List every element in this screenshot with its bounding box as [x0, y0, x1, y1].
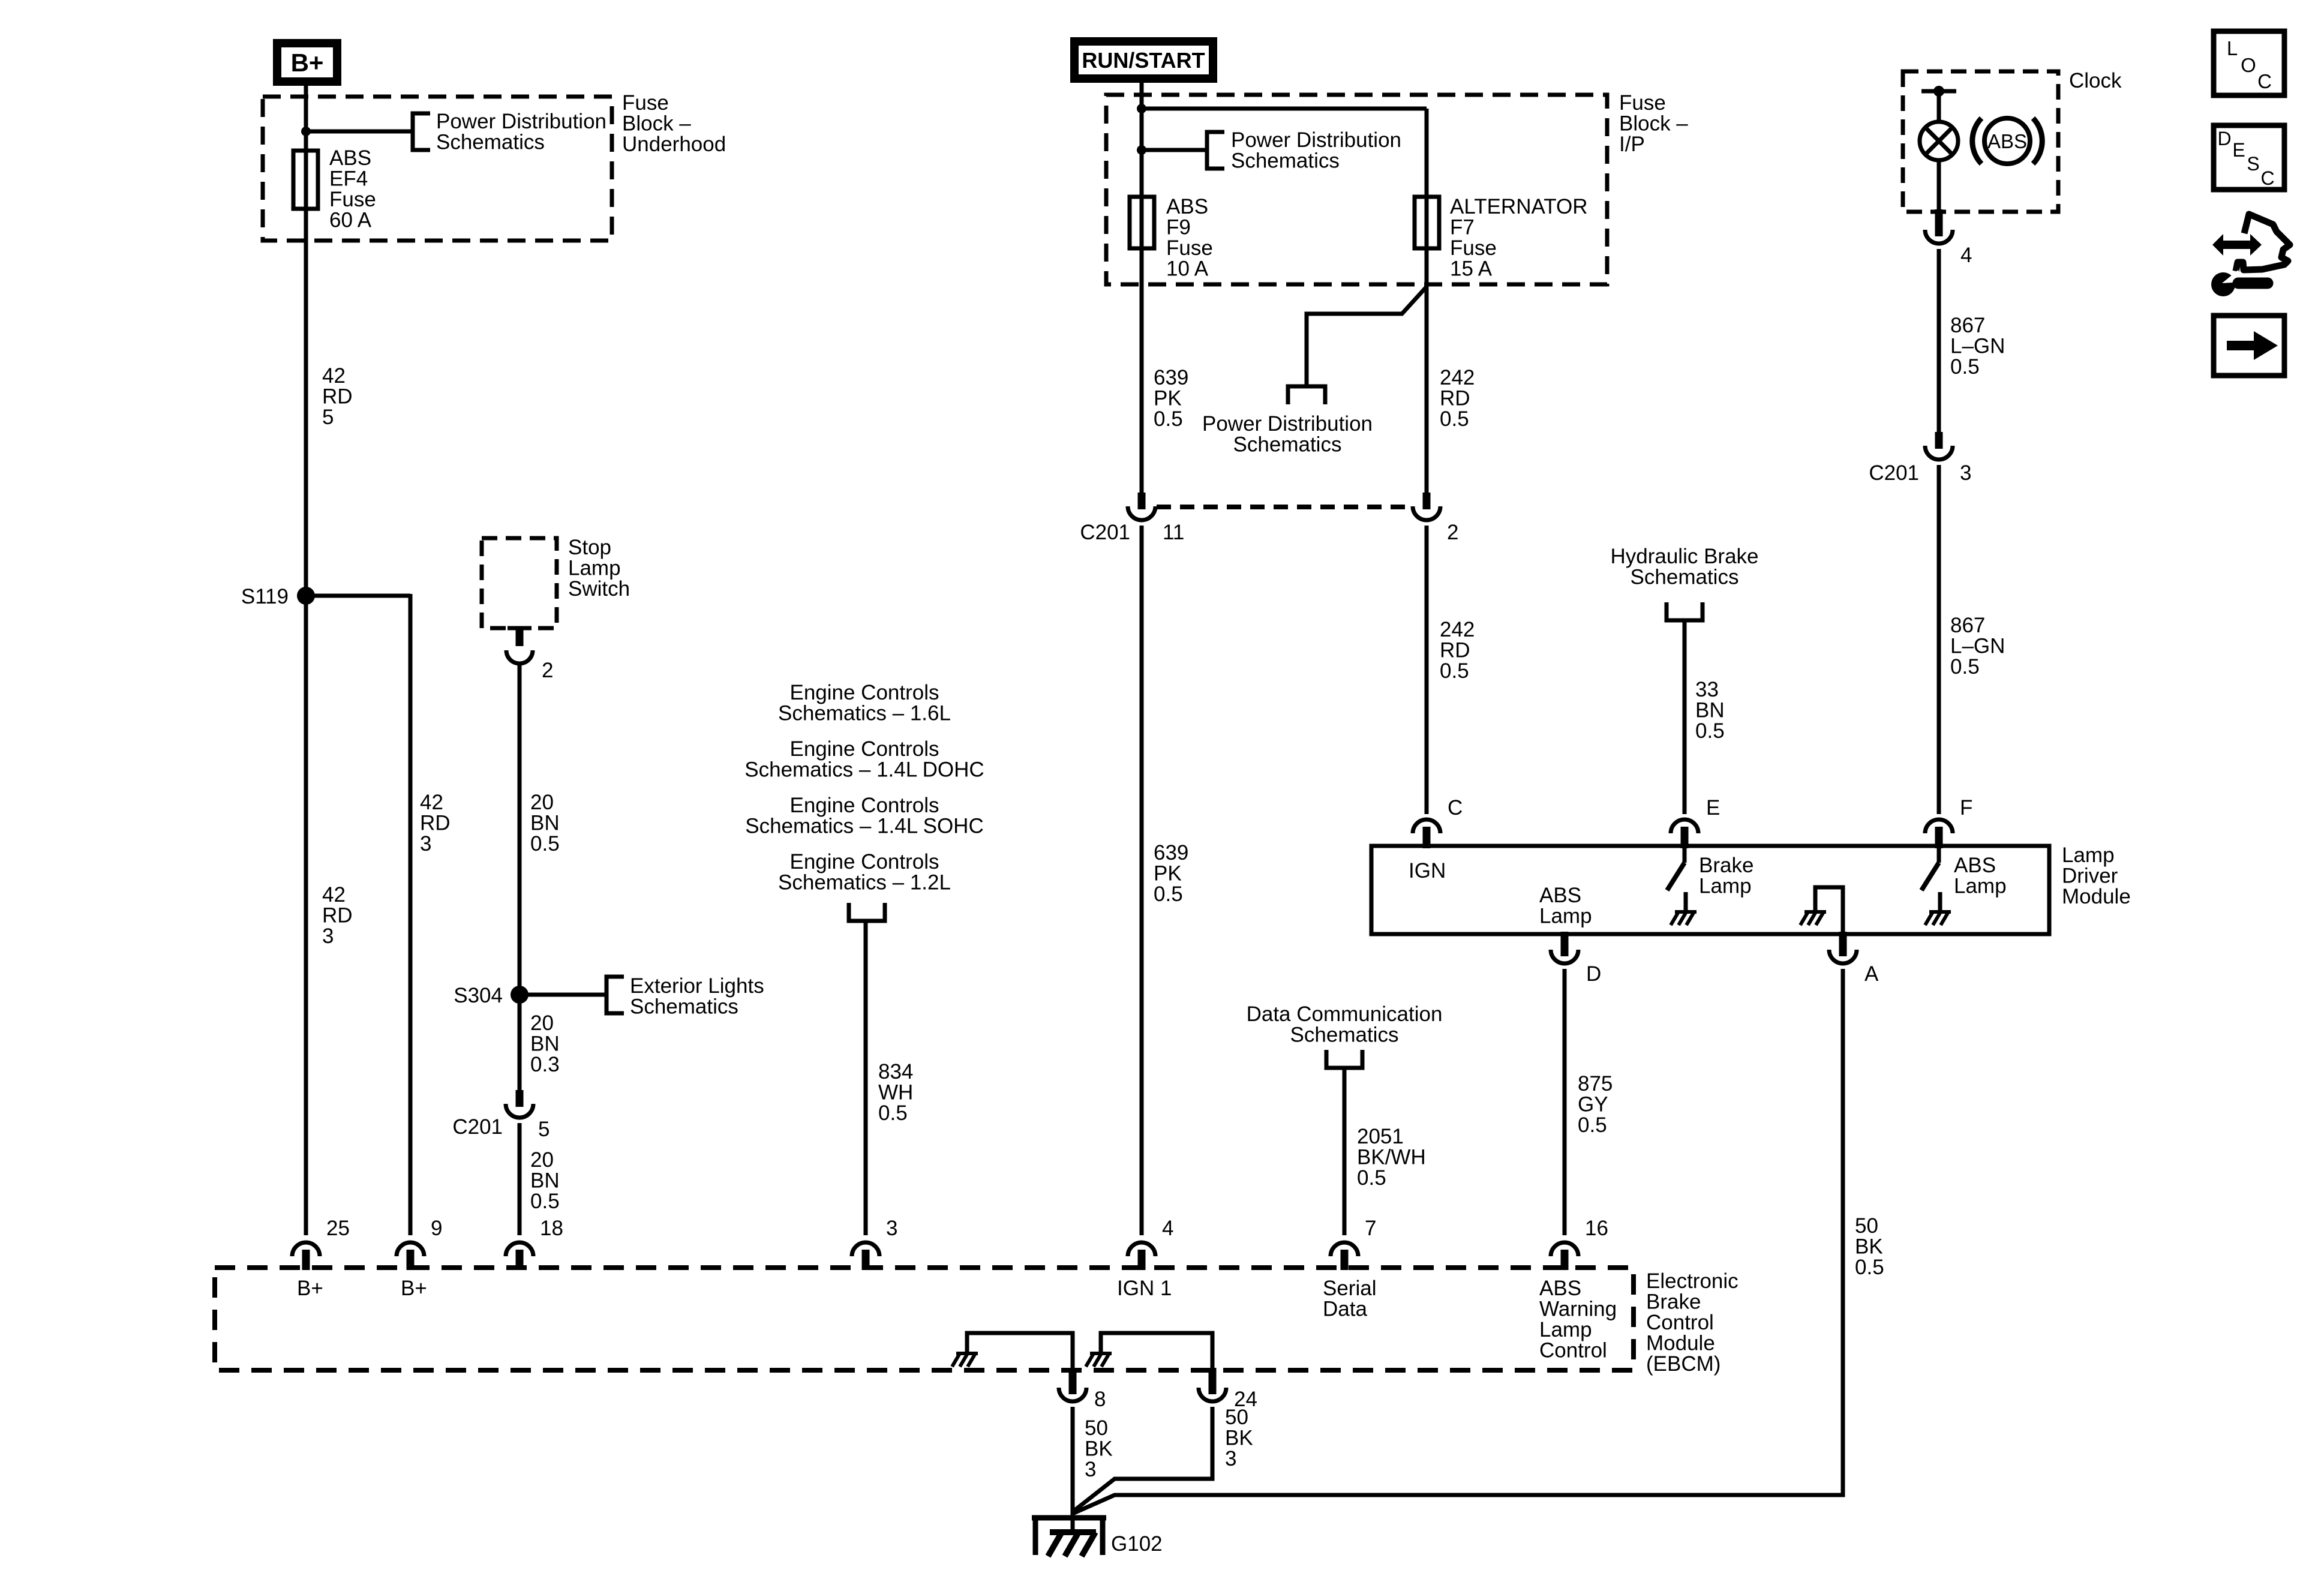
svg-text:8: 8 [1094, 1388, 1106, 1411]
svg-text:0.5: 0.5 [1578, 1113, 1607, 1137]
icon forward arrow [2214, 316, 2284, 376]
svg-text:Power Distribution: Power Distribution [1231, 128, 1401, 152]
svg-text:2: 2 [1447, 521, 1458, 544]
node junction to alternator fuse branch [1137, 104, 1146, 113]
label ABS Warning Lamp Control [1539, 1277, 1617, 1362]
reference bracket Data Communication Schematics [1326, 1050, 1362, 1068]
svg-text:Engine Controls: Engine Controls [789, 794, 939, 817]
connector pin 18 of EBCM [506, 1217, 563, 1270]
label ABS Lamp (switch F) [1954, 854, 2007, 898]
svg-text:Engine Controls: Engine Controls [789, 850, 939, 873]
label wire 834 WH 0.5 [878, 1060, 913, 1125]
wire 42 RD 3 branch S119 to EBCM pin 9 [306, 594, 410, 1235]
svg-text:50: 50 [1855, 1214, 1878, 1238]
connector pin 9 of EBCM [397, 1217, 442, 1270]
svg-text:60 A: 60 A [329, 209, 372, 232]
svg-text:0.5: 0.5 [1154, 407, 1183, 431]
svg-text:Fuse: Fuse [622, 91, 669, 115]
svg-text:PK: PK [1154, 862, 1182, 885]
wire 33 BN 0.5 hydraulic brake to lamp driver module pin E [1683, 620, 1687, 814]
label wire 50 BK 3 (pin 24) [1225, 1406, 1253, 1470]
label Clock [2069, 69, 2122, 92]
label Engine Controls Schematics - 1.6L [778, 681, 951, 725]
label Serial Data [1323, 1277, 1376, 1321]
label wire 867 L-GN 0.5 (lower) [1950, 614, 2005, 679]
label wire 50 BK 3 (pin 8) [1085, 1416, 1113, 1481]
label wire 42 RD 3 (left) [322, 883, 353, 948]
wire 50 BK 0.5 pin A to G102 [1073, 969, 1843, 1514]
svg-text:875: 875 [1578, 1072, 1613, 1095]
label ALTERNATOR F7 Fuse 15 A [1450, 195, 1587, 281]
wire RUN/START to fuse F9 [1140, 83, 1144, 199]
connector pin 2 of stop lamp switch [506, 628, 553, 682]
svg-text:0.5: 0.5 [530, 832, 560, 855]
svg-text:639: 639 [1154, 841, 1188, 864]
svg-text:L: L [2227, 37, 2238, 59]
connector pin 4 of clock [1925, 209, 1972, 267]
svg-text:Schematics – 1.4L SOHC: Schematics – 1.4L SOHC [745, 815, 983, 838]
svg-text:42: 42 [322, 883, 346, 906]
svg-text:Electronic: Electronic [1646, 1269, 1739, 1293]
svg-text:C: C [2260, 167, 2274, 189]
svg-text:E: E [1706, 796, 1720, 819]
svg-text:RUN/START: RUN/START [1082, 48, 1205, 73]
svg-text:20: 20 [530, 1148, 554, 1172]
svg-text:5: 5 [538, 1118, 550, 1141]
connector C201 pin 5 [452, 1090, 550, 1141]
svg-text:F7: F7 [1450, 216, 1475, 239]
svg-text:ABS: ABS [1166, 195, 1208, 218]
svg-text:Lamp: Lamp [1539, 905, 1592, 928]
label wire 639 PK 0.5 (upper) [1154, 366, 1188, 431]
reference bracket Engine Controls Schematics [849, 903, 885, 921]
svg-text:0.5: 0.5 [1695, 719, 1725, 743]
wire 639 PK 0.5 C201-11 to EBCM pin 4 [1140, 526, 1144, 1235]
switch Brake Lamp driver [1667, 846, 1697, 925]
svg-text:7: 7 [1365, 1217, 1376, 1240]
connector C201 pin 2 [1413, 493, 1458, 544]
svg-text:Power Distribution: Power Distribution [436, 110, 606, 133]
svg-text:BK: BK [1085, 1437, 1113, 1461]
svg-text:S119: S119 [241, 585, 289, 608]
wire S304 to exterior lights reference [520, 993, 606, 997]
reference bracket Hydraulic Brake Schematics [1667, 602, 1703, 620]
svg-text:Exterior Lights: Exterior Lights [630, 974, 764, 998]
label wire 50 BK 0.5 [1855, 1214, 1884, 1279]
svg-text:ABS: ABS [1954, 854, 1996, 877]
svg-text:RD: RD [1440, 639, 1470, 662]
connector pin 3 of EBCM [852, 1217, 897, 1270]
svg-text:Schematics: Schematics [1290, 1023, 1399, 1047]
svg-text:3: 3 [1085, 1458, 1096, 1481]
svg-text:15 A: 15 A [1450, 257, 1493, 281]
svg-text:242: 242 [1440, 618, 1475, 641]
svg-text:EF4: EF4 [329, 167, 368, 191]
svg-text:Lamp: Lamp [1699, 875, 1752, 898]
wire 242 RD 0.5 alternator branch to power distribution [1307, 287, 1427, 386]
svg-text:(EBCM): (EBCM) [1646, 1352, 1721, 1376]
label wire 33 BN 0.5 [1695, 678, 1725, 743]
lamp driver module box [1371, 846, 2049, 934]
svg-text:S: S [2247, 153, 2259, 175]
connector pin A of lamp driver module [1829, 932, 1879, 986]
svg-text:242: 242 [1440, 366, 1475, 389]
svg-text:ABS: ABS [1539, 1277, 1581, 1300]
label wire 639 PK 0.5 (lower) [1154, 841, 1188, 906]
label Exterior Lights Schematics [630, 974, 764, 1019]
svg-text:GY: GY [1578, 1093, 1608, 1116]
svg-text:16: 16 [1585, 1217, 1608, 1240]
label Electronic Brake Control Module (EBCM) [1646, 1269, 1739, 1376]
label Lamp Driver Module [2062, 843, 2131, 908]
svg-text:867: 867 [1950, 614, 1985, 637]
svg-text:18: 18 [540, 1217, 563, 1240]
connector pin E of lamp driver module [1671, 796, 1720, 848]
svg-text:Lamp: Lamp [2062, 843, 2115, 867]
internal ground of EBCM (pin 24) [1086, 1333, 1212, 1373]
svg-text:Module: Module [1646, 1332, 1715, 1355]
label wire 42 RD 5 [322, 364, 353, 429]
wire 42 RD 5 fuse EF4 to S119 [304, 209, 308, 596]
svg-text:C201: C201 [452, 1115, 503, 1139]
fuse block - underhood dashed box [263, 97, 612, 241]
node S304 splice [454, 984, 529, 1007]
svg-text:Schematics: Schematics [630, 995, 738, 1019]
svg-text:G102: G102 [1111, 1532, 1163, 1556]
label Fuse Block - Underhood [622, 91, 726, 156]
svg-text:2051: 2051 [1357, 1125, 1404, 1148]
svg-text:ABS: ABS [1987, 130, 2027, 152]
wire 639 PK 0.5 fuse F9 to C201 pin 11 [1140, 248, 1144, 493]
svg-text:0.5: 0.5 [1855, 1256, 1884, 1279]
switch ABS Lamp driver [1921, 846, 1951, 925]
label IGN 1 [1117, 1277, 1172, 1300]
svg-text:Control: Control [1539, 1339, 1607, 1362]
connector pin F of lamp driver module [1925, 796, 1972, 848]
svg-text:F9: F9 [1166, 216, 1191, 239]
battery feed symbol B+ [277, 43, 337, 82]
connector C201 pass-through dashed line [1157, 505, 1412, 509]
svg-text:Schematics – 1.2L: Schematics – 1.2L [778, 871, 951, 894]
label B+ (pin 25) [297, 1277, 323, 1300]
svg-text:PK: PK [1154, 387, 1182, 410]
label Engine Controls Schematics - 1.2L [778, 850, 951, 894]
svg-text:C201: C201 [1080, 521, 1130, 544]
svg-text:50: 50 [1085, 1416, 1108, 1440]
svg-text:11: 11 [1163, 521, 1184, 544]
label wire 20 BN 0.5 (lower) [530, 1148, 560, 1213]
svg-text:RD: RD [322, 385, 353, 409]
svg-text:0.5: 0.5 [530, 1190, 560, 1213]
svg-text:3: 3 [1960, 461, 1971, 485]
ignition feed symbol RUN/START [1074, 41, 1213, 79]
svg-text:B+: B+ [401, 1277, 427, 1300]
svg-text:D: D [1586, 962, 1601, 986]
wire 242 RD 0.5 C201-2 to lamp driver module pin C [1425, 526, 1429, 814]
svg-text:42: 42 [322, 364, 346, 388]
svg-text:Engine Controls: Engine Controls [789, 681, 939, 704]
label Power Distribution Schematics (I/P) [1231, 128, 1401, 173]
reference bracket Exterior Lights Schematics [606, 977, 624, 1013]
svg-text:639: 639 [1154, 366, 1188, 389]
svg-text:B+: B+ [291, 49, 324, 77]
svg-text:4: 4 [1162, 1217, 1173, 1240]
svg-text:Schematics: Schematics [1631, 566, 1739, 589]
svg-text:Fuse: Fuse [1450, 236, 1497, 260]
svg-text:20: 20 [530, 791, 554, 814]
svg-text:ABS: ABS [1539, 884, 1581, 907]
label Fuse Block - I/P [1619, 91, 1688, 156]
svg-text:Stop: Stop [568, 536, 611, 559]
svg-text:0.5: 0.5 [1440, 407, 1469, 431]
svg-text:ABS: ABS [329, 146, 371, 170]
svg-text:0.5: 0.5 [1154, 882, 1183, 906]
svg-text:Brake: Brake [1699, 854, 1753, 877]
label wire 20 BN 0.5 (upper) [530, 791, 560, 855]
svg-text:Schematics: Schematics [1231, 149, 1340, 173]
svg-text:RD: RD [1440, 387, 1470, 410]
svg-text:BN: BN [530, 1169, 560, 1193]
svg-text:Schematics – 1.4L DOHC: Schematics – 1.4L DOHC [744, 758, 984, 782]
svg-text:3: 3 [1225, 1447, 1236, 1470]
svg-text:Data: Data [1323, 1298, 1367, 1321]
svg-text:Data Communication: Data Communication [1247, 1002, 1443, 1026]
clock dashed box [1903, 71, 2058, 212]
label wire 242 RD 0.5 (lower) [1440, 618, 1475, 683]
svg-text:Fuse: Fuse [329, 188, 376, 211]
label ABS F9 Fuse 10 A [1166, 195, 1213, 281]
connector pin 25 of EBCM [292, 1217, 350, 1270]
wire 2051 BK/WH 0.5 serial data to EBCM pin 7 [1343, 1068, 1347, 1235]
wire clock tap to ABS lamp [1937, 91, 1941, 124]
connector pin D of lamp driver module [1551, 932, 1601, 986]
label Engine Controls Schematics - 1.4L SOHC [745, 794, 983, 838]
icon DESC [2214, 125, 2284, 190]
connector C201 pin 3 (clock circuit) [1869, 432, 1971, 485]
svg-text:5: 5 [322, 406, 334, 429]
reference bracket Power Distribution Schematics (alternator) [1288, 386, 1325, 404]
svg-text:BK: BK [1855, 1235, 1883, 1259]
svg-text:C: C [2257, 70, 2272, 92]
svg-text:BN: BN [1695, 699, 1725, 722]
connector pin 16 of EBCM [1551, 1217, 1608, 1270]
wire 42 RD 3 S119 to EBCM pin 25 [304, 596, 308, 1235]
label Stop Lamp Switch [568, 536, 630, 601]
svg-text:Underhood: Underhood [622, 133, 726, 156]
svg-text:BK/WH: BK/WH [1357, 1146, 1426, 1169]
label Engine Controls Schematics - 1.4L DOHC [744, 737, 984, 782]
wire 242 RD 0.5 fuse F7 to C201 pin 2 [1425, 248, 1429, 493]
svg-text:L–GN: L–GN [1950, 635, 2005, 658]
label ABS EF4 Fuse 60 A [329, 146, 376, 232]
label ABS Lamp (output D) [1539, 884, 1592, 928]
fuse EF4 60A body [293, 151, 318, 209]
svg-text:O: O [2241, 54, 2256, 76]
label wire 20 BN 0.3 [530, 1011, 560, 1076]
reference bracket Power Distribution Schematics (underhood) [413, 113, 430, 150]
svg-text:Lamp: Lamp [568, 557, 621, 580]
internal ground link to pin A [1800, 887, 1843, 932]
icon vehicle data with wrench [2211, 214, 2290, 296]
wire 20 BN 0.3 S304 to C201 pin 5 [518, 995, 522, 1091]
reference bracket Power Distribution Schematics (I/P) [1207, 132, 1224, 169]
fuse block - I/P dashed box [1106, 95, 1607, 284]
label Brake Lamp [1699, 854, 1753, 898]
svg-text:0.5: 0.5 [1440, 659, 1469, 683]
wire 834 WH 0.5 engine controls to EBCM pin 3 [864, 921, 868, 1235]
ground G102 [1032, 1511, 1163, 1556]
label IGN [1409, 859, 1446, 882]
svg-text:Hydraulic Brake: Hydraulic Brake [1610, 545, 1758, 568]
svg-text:F: F [1960, 796, 1972, 819]
icon LOC [2214, 31, 2284, 95]
connector pin 8 of EBCM [1059, 1368, 1106, 1411]
wire to power distribution reference [306, 130, 413, 134]
connector pin 4 of EBCM (IGN 1) [1128, 1217, 1173, 1270]
svg-text:C201: C201 [1869, 461, 1919, 485]
wire 875 GY 0.5 pin D to EBCM pin 16 [1563, 969, 1567, 1235]
svg-text:BN: BN [530, 1032, 560, 1056]
svg-text:L–GN: L–GN [1950, 335, 2005, 358]
svg-text:0.5: 0.5 [878, 1101, 908, 1125]
connector pin 7 of EBCM (serial data) [1331, 1217, 1376, 1270]
node S119 splice [241, 585, 315, 608]
label wire 242 RD 0.5 (upper) [1440, 366, 1475, 431]
connector pin 24 of EBCM [1199, 1368, 1257, 1411]
svg-text:Warning: Warning [1539, 1298, 1617, 1321]
stop lamp switch dashed box [482, 538, 557, 628]
svg-text:10 A: 10 A [1166, 257, 1209, 281]
connector C201 pin 11 [1080, 493, 1184, 544]
svg-text:0.5: 0.5 [1950, 655, 1980, 679]
svg-text:Schematics – 1.6L: Schematics – 1.6L [778, 702, 951, 725]
svg-text:2: 2 [542, 659, 553, 682]
svg-text:Block –: Block – [1619, 112, 1688, 136]
wire 50 BK 3 pin 8 to G102 [1071, 1407, 1075, 1514]
label wire 42 RD 3 (right branch) [420, 791, 451, 855]
svg-text:Fuse: Fuse [1166, 236, 1213, 260]
svg-text:9: 9 [431, 1217, 442, 1240]
svg-text:E: E [2232, 139, 2245, 161]
fuse F9 10A body [1130, 197, 1154, 248]
svg-text:Power Distribution: Power Distribution [1202, 412, 1373, 436]
label wire 2051 BK/WH 0.5 [1357, 1125, 1426, 1190]
label Power Distribution Schematics (alternator) [1202, 412, 1373, 457]
wire to power distribution reference (I/P) [1142, 148, 1207, 152]
svg-text:I/P: I/P [1619, 133, 1645, 156]
svg-text:20: 20 [530, 1011, 554, 1035]
svg-text:Module: Module [2062, 885, 2131, 908]
svg-text:D: D [2217, 128, 2231, 149]
svg-text:42: 42 [420, 791, 443, 814]
node junction to power distribution reference [1137, 145, 1146, 155]
node clock supply tap [1921, 86, 1956, 97]
label Hydraulic Brake Schematics [1610, 545, 1758, 589]
ABS indicator icon [1972, 118, 2042, 164]
wire 867 L-GN 0.5 clock to C201 pin 3 [1937, 249, 1941, 433]
svg-text:Schematics: Schematics [436, 131, 545, 154]
lamp symbol ABS warning lamp in clock [1920, 122, 1958, 160]
svg-text:Fuse: Fuse [1619, 91, 1666, 115]
electronic brake control module dashed box [215, 1268, 1634, 1370]
svg-text:BK: BK [1225, 1427, 1253, 1450]
svg-text:50: 50 [1225, 1406, 1248, 1429]
svg-text:4: 4 [1960, 244, 1972, 267]
wire 20 BN 0.5 C201-5 to EBCM pin 18 [518, 1123, 522, 1235]
svg-text:867: 867 [1950, 314, 1985, 337]
svg-text:Clock: Clock [2069, 69, 2122, 92]
svg-text:Lamp: Lamp [1539, 1318, 1592, 1341]
svg-text:0.5: 0.5 [1357, 1166, 1386, 1190]
svg-text:BN: BN [530, 812, 560, 835]
svg-text:Control: Control [1646, 1311, 1714, 1334]
svg-text:Brake: Brake [1646, 1290, 1701, 1314]
svg-text:RD: RD [322, 904, 353, 927]
svg-text:Lamp: Lamp [1954, 875, 2007, 898]
svg-text:B+: B+ [297, 1277, 323, 1300]
svg-text:0.3: 0.3 [530, 1053, 560, 1076]
svg-text:834: 834 [878, 1060, 913, 1083]
svg-text:33: 33 [1695, 678, 1719, 701]
svg-text:S304: S304 [454, 984, 503, 1007]
svg-text:0.5: 0.5 [1950, 355, 1980, 379]
wire ABS lamp to clock connector [1937, 160, 1941, 215]
svg-text:3: 3 [322, 924, 334, 948]
svg-text:ALTERNATOR: ALTERNATOR [1450, 195, 1587, 218]
svg-text:Block –: Block – [622, 112, 691, 136]
internal ground of EBCM (pin 8) [952, 1333, 1073, 1373]
wire 20 BN 0.5 stop lamp switch to S304 [518, 665, 522, 995]
wire 50 BK 3 pin 24 to G102 [1073, 1407, 1212, 1512]
svg-text:25: 25 [326, 1217, 350, 1240]
svg-text:WH: WH [878, 1081, 913, 1104]
label Power Distribution Schematics (underhood) [436, 110, 606, 154]
svg-text:IGN 1: IGN 1 [1117, 1277, 1172, 1300]
svg-text:Serial: Serial [1323, 1277, 1376, 1300]
connector pin C of lamp driver module [1413, 796, 1463, 848]
label B+ (pin 9) [401, 1277, 427, 1300]
svg-text:Switch: Switch [568, 577, 630, 601]
svg-text:3: 3 [420, 832, 431, 855]
wire branch to fuse F7 [1142, 109, 1427, 199]
svg-text:Engine Controls: Engine Controls [789, 737, 939, 761]
wire 867 L-GN 0.5 C201-3 to lamp driver module pin F [1937, 465, 1941, 814]
svg-text:A: A [1864, 962, 1879, 986]
svg-text:Driver: Driver [2062, 864, 2118, 888]
label Data Communication Schematics [1247, 1002, 1443, 1047]
node junction on B+ feed [301, 127, 311, 136]
fuse F7 15A body [1415, 197, 1439, 248]
svg-text:C: C [1448, 796, 1463, 819]
label wire 867 L-GN 0.5 (upper) [1950, 314, 2005, 379]
svg-text:RD: RD [420, 812, 451, 835]
label wire 875 GY 0.5 [1578, 1072, 1613, 1137]
svg-text:IGN: IGN [1409, 859, 1446, 882]
svg-text:3: 3 [886, 1217, 897, 1240]
svg-text:Schematics: Schematics [1233, 433, 1342, 457]
wire B+ down to fuse EF4 [304, 86, 308, 152]
